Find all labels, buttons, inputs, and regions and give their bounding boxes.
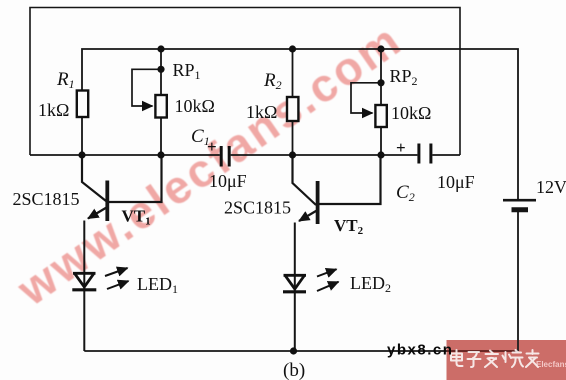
svg-text:1kΩ: 1kΩ	[246, 102, 277, 122]
svg-text:12V: 12V	[536, 177, 566, 197]
svg-text:(b): (b)	[283, 360, 305, 380]
svg-text:2SC1815: 2SC1815	[13, 189, 80, 209]
svg-text:VT2: VT2	[334, 216, 364, 237]
svg-text:LED2: LED2	[350, 273, 391, 295]
svg-text:ybx8.cn: ybx8.cn	[387, 342, 453, 359]
svg-text:R1: R1	[56, 69, 75, 91]
svg-text:+: +	[396, 138, 406, 157]
svg-text:R2: R2	[263, 70, 282, 92]
svg-text:10μF: 10μF	[437, 172, 475, 192]
svg-text:2SC1815: 2SC1815	[224, 198, 291, 218]
svg-text:C2: C2	[396, 182, 415, 204]
svg-text:10kΩ: 10kΩ	[391, 103, 431, 123]
svg-text:Elecfans.com: Elecfans.com	[536, 360, 566, 369]
svg-text:1kΩ: 1kΩ	[38, 100, 69, 120]
svg-text:RP1: RP1	[173, 60, 201, 82]
svg-text:www.elecfans.com: www.elecfans.com	[7, 13, 411, 316]
svg-text:LED1: LED1	[137, 274, 178, 296]
svg-text:10kΩ: 10kΩ	[175, 96, 215, 116]
svg-text:10μF: 10μF	[209, 171, 247, 191]
svg-text:RP2: RP2	[390, 66, 418, 88]
svg-text:+: +	[207, 137, 217, 156]
